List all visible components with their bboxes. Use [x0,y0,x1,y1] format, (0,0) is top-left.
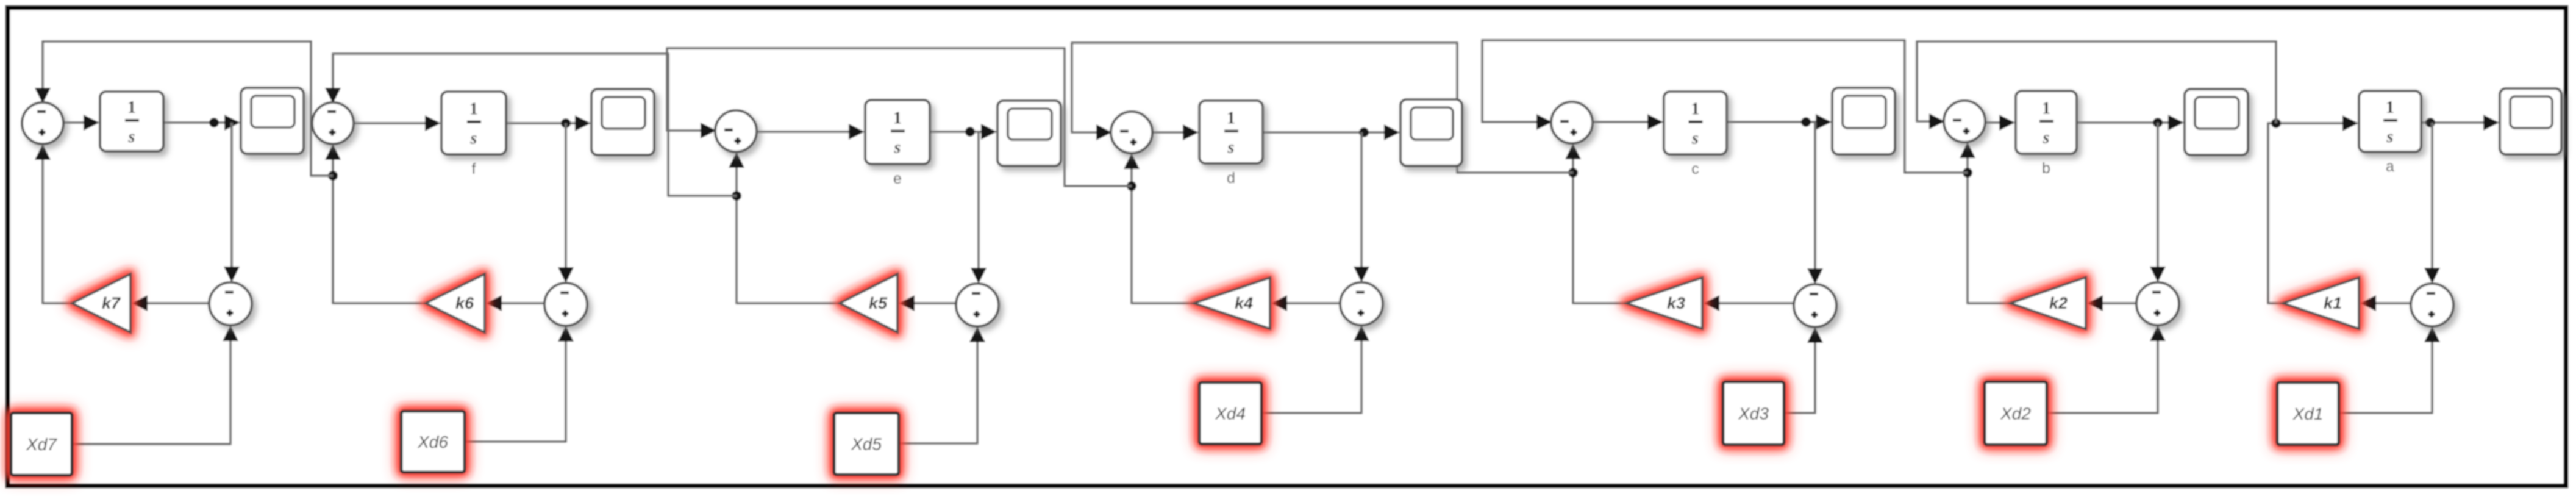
wire Xd2 -> error Sum bottom [2047,339,2158,413]
sum block Sum (section k3) [1551,102,1593,143]
svg-text:k7: k7 [102,294,121,312]
svg-text:s: s [2386,127,2394,146]
svg-text:k1: k1 [2324,294,2342,312]
wire Integrator->Scope (section k2) [2077,121,2181,124]
arrow into gain k5 [899,295,915,311]
error sum block (section k7) [209,282,252,325]
svg-text:1: 1 [2386,98,2394,117]
integrator block 1/s a (section k1) [2359,91,2421,152]
feedback wire k3-junction to Sum 7 left [1072,43,1573,173]
arrow into integrator (section k2) [1999,115,2015,131]
svg-text:Xd5: Xd5 [851,435,882,454]
integrator block 1/s b (section k2) [2016,91,2077,154]
feedback wire k3-junction to Sum 7 left arrowhead [1096,124,1112,140]
feedback wire k6-junction to Sum 13 top [43,41,333,176]
gain block k1 [2283,278,2359,329]
junction node k1 output [2271,118,2281,128]
error sum block (section k5) [956,284,999,326]
wire Sum->Integrator (section k2) [1985,121,2012,124]
wire Xd6 -> error Sum bottom [465,339,566,442]
arrow into error Sum top (section k5) [971,268,987,284]
svg-text:k2: k2 [2049,294,2068,312]
sum block Sum (section k6) [312,102,354,144]
arrow into Sum bottom (section k2) [1960,142,1975,158]
constant block Xd4 [1199,382,1261,444]
svg-text:1: 1 [2042,99,2050,118]
arrow into gain k1 [2360,295,2376,311]
wire Integrator->Scope (section k5) [930,131,994,133]
arrow into integrator a [2342,115,2358,131]
svg-text:e: e [893,170,902,187]
gain block k6 [426,274,485,332]
arrow into error Sum bottom (section k1) [2424,326,2440,342]
svg-text:c: c [1691,160,1699,178]
svg-text:s: s [894,138,901,157]
svg-text:Xd6: Xd6 [417,433,448,451]
scope block (section k6) [591,89,654,155]
arrow into error Sum top (section k3) [1807,268,1823,284]
svg-text:1: 1 [127,98,136,117]
scope block (section k1) [2500,88,2561,154]
arrow into scope (section k1) [2483,115,2499,131]
arrow into error Sum bottom (section k3) [1807,327,1823,343]
gain block k5 [840,274,897,332]
branch node on integrator output (section k5) [965,127,975,137]
integrator block 1/s d (section k4) [1199,101,1263,163]
svg-text:k5: k5 [869,294,888,312]
wire error Sum->gain k3 [1717,302,1794,304]
integrator block 1/s c (section k3) [1664,92,1727,154]
arrow into error Sum bottom (section k4) [1354,325,1369,341]
constant block Xd7 [11,413,72,475]
svg-text:b: b [2042,160,2050,177]
wire branch down to error Sum (section k3) [1814,122,1816,271]
feedback wire k6-junction to Sum 13 top arrowhead [35,88,51,104]
svg-text:1: 1 [893,109,902,128]
arrow into scope (section k6) [575,115,591,131]
arrow into scope (section k3) [1816,114,1832,130]
svg-text:k4: k4 [1235,294,1253,312]
branch node on integrator output (section k6) [561,118,571,128]
feedback wire k5-junction to Sum 11 top arrowhead [325,88,341,104]
wire gain k7 -> Sum bottom [43,157,72,303]
svg-text:Xd3: Xd3 [1738,404,1769,423]
wire branch down to error Sum (section k5) [977,132,980,270]
feedback wire k4-junction to Sum 9 left [667,48,1132,186]
svg-text:Xd2: Xd2 [2000,404,2031,423]
scope block (section k4) [1400,99,1462,166]
gain block k3 [1626,278,1702,329]
wire Xd5 -> error Sum bottom [899,340,977,443]
scope block (section k7) [241,88,304,154]
error sum block (section k1) [2411,284,2453,326]
wire gain k1 -> integrator a [2268,123,2355,303]
arrow into error Sum top (section k7) [224,267,240,282]
svg-text:s: s [1227,138,1235,157]
arrow into gain k3 [1704,295,1719,311]
arrow into error Sum bottom (section k6) [558,326,574,342]
wire gain k4 -> Sum bottom [1132,167,1194,303]
wire Sum->Integrator (section k3) [1593,121,1660,123]
svg-text:1: 1 [469,100,478,119]
integrator block 1/s (section k7) [100,92,163,151]
feedback wire k1-node to Sum 3 left arrowhead [1929,113,1945,129]
svg-text:d: d [1227,170,1235,187]
wire branch down to error Sum (section k7) [230,123,233,269]
error sum block (section k6) [544,283,587,326]
junction node below Sum (section k6) [328,171,338,181]
wire Sum->Integrator (section k5) [757,131,862,133]
error sum block (section k3) [1794,284,1836,327]
svg-text:Xd7: Xd7 [26,435,57,454]
wire Integrator->Scope (section k3) [1727,121,1829,123]
wire gain k3 -> Sum bottom [1573,157,1626,303]
arrow into error Sum top (section k6) [558,267,574,283]
feedback wire k2-junction to Sum 5 left [1482,40,1968,173]
svg-text:k3: k3 [1667,294,1685,312]
wire branch down to error Sum (section k1) [2431,123,2433,270]
arrow into error Sum top (section k2) [2150,267,2166,282]
branch node on integrator output (section k1) [2425,118,2435,127]
arrow into Sum bottom (section k6) [325,144,341,160]
wire Sum->Integrator (section k7) [63,121,96,124]
svg-text:Xd4: Xd4 [1215,404,1246,423]
wire error Sum->gain k6 [499,302,544,304]
svg-text:Xd1: Xd1 [2292,404,2324,423]
constant block Xd5 [834,413,899,475]
wire Xd7 -> error Sum bottom [72,339,230,444]
arrow into integrator (section k3) [1647,114,1663,130]
junction node below Sum (section k4) [1127,181,1136,191]
scope block (section k3) [1832,88,1895,154]
gain block k4 [1194,278,1270,329]
arrow into integrator (section k6) [425,115,441,131]
wire Sum->Integrator (section k6) [354,122,438,124]
branch node on integrator output (section k3) [1801,117,1811,127]
arrow into error Sum bottom (section k7) [223,325,238,341]
constant block Xd2 [1985,382,2047,445]
branch node on integrator output (section k4) [1359,127,1369,137]
wire error Sum->gain k2 [2100,302,2136,304]
constant block Xd1 [2277,382,2339,445]
arrow into gain k4 [1271,295,1287,311]
integrator block 1/s f (section k6) [441,92,506,154]
arrow into scope (section k5) [981,124,997,140]
gain block k2 [2010,278,2086,329]
feedback wire k2-junction to Sum 5 left arrowhead [1536,114,1552,130]
scope block (section k5) [997,101,1061,166]
feedback wire k5-junction to Sum 11 top [333,54,737,196]
junction node below Sum (section k2) [1963,168,1972,178]
branch node on integrator output (section k7) [209,118,219,127]
arrow into scope (section k7) [224,115,240,131]
wire Integrator->Scope (section k4) [1263,131,1397,134]
wire branch down to error Sum (section k2) [2157,123,2159,269]
arrow into gain k2 [2087,295,2103,311]
svg-text:1: 1 [1691,100,1700,119]
constant block Xd6 [401,411,465,472]
wire gain k5 -> Sum bottom [737,165,840,303]
wire gain k2 -> Sum bottom [1968,156,2010,303]
arrow into integrator (section k5) [849,124,865,140]
arrow into Sum bottom (section k3) [1565,143,1581,159]
error sum block (section k4) [1340,282,1383,325]
feedback wire k1-node to Sum 3 left [1917,41,2276,123]
sum block Sum (section k5) [715,110,757,152]
wire Integrator->Scope (section k7) [163,121,237,124]
arrow into integrator (section k7) [84,115,99,131]
wire gain k6 -> Sum bottom [333,157,426,303]
sum block Sum (section k7) [22,102,63,144]
arrow into scope (section k2) [2168,115,2184,131]
svg-text:1: 1 [1227,109,1235,128]
arrow into error Sum bottom (section k5) [969,326,985,342]
wire branch down to error Sum (section k4) [1360,132,1363,269]
wire branch down to error Sum (section k6) [565,123,567,270]
wire Sum->Integrator (section k4) [1152,131,1196,134]
arrow into error Sum bottom (section k2) [2150,325,2166,341]
error sum block (section k2) [2136,282,2179,325]
wire Integrator->Scope (section k1) [2421,121,2496,124]
scope block (section k2) [2185,89,2248,155]
sum block Sum (section k4) [1111,112,1152,153]
arrow into scope (section k4) [1384,124,1400,140]
feedback wire k4-junction to Sum 9 left arrowhead [701,123,716,138]
arrow into Sum bottom (section k4) [1124,153,1140,169]
svg-text:s: s [2043,129,2050,148]
svg-text:k6: k6 [455,294,474,312]
wire error Sum->gain k7 [145,302,209,304]
arrow into gain k6 [486,295,502,311]
svg-text:a: a [2386,158,2394,175]
svg-text:s: s [128,127,135,146]
svg-text:f: f [472,160,476,178]
junction node below Sum (section k3) [1568,168,1578,178]
wire error Sum->gain k4 [1285,302,1340,304]
wire error Sum->gain k5 [912,302,956,304]
arrow into gain k7 [132,295,148,311]
constant block Xd3 [1723,382,1784,445]
arrow into Sum bottom (section k7) [35,144,51,160]
arrow into error Sum top (section k1) [2424,268,2440,284]
arrow into error Sum top (section k4) [1354,267,1369,282]
integrator block 1/s e (section k5) [865,100,930,164]
wire Integrator->Scope (section k6) [506,122,588,124]
wire Xd4 -> error Sum bottom [1261,339,1361,413]
wire Xd3 -> error Sum bottom [1784,340,1815,413]
wire Xd1 -> error Sum bottom [2339,340,2432,413]
arrow into integrator (section k4) [1183,124,1199,140]
junction node below Sum (section k5) [732,191,741,201]
branch node on integrator output (section k2) [2153,118,2163,127]
sum block Sum (section k2) [1944,101,1985,142]
svg-text:s: s [1691,129,1699,148]
arrow into Sum bottom (section k5) [729,152,744,168]
wire error Sum->gain k1 [2374,302,2411,304]
svg-text:s: s [470,129,477,148]
gain block k7 [72,274,130,332]
